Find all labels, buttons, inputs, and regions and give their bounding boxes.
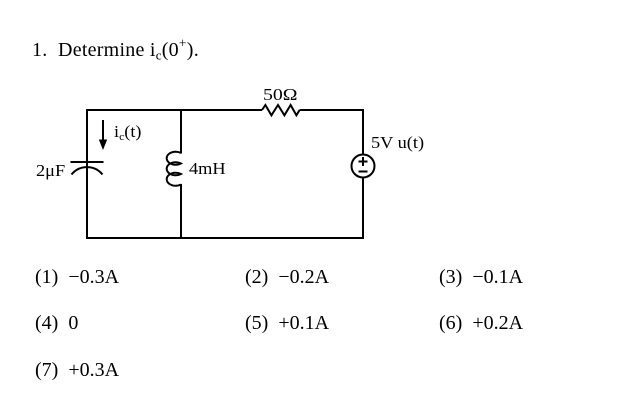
source V1 5V u(t) circle	[352, 155, 375, 178]
answer option 3	[439, 267, 523, 287]
wire: right side top	[362, 109, 364, 154]
wire: middle vertical bottom	[180, 184, 182, 239]
wire: middle vertical top	[180, 109, 182, 154]
current arrow ic(t)	[99, 120, 107, 150]
resistor R 50ohm zigzag	[262, 105, 300, 115]
title: problem statement	[32, 40, 199, 60]
capacitor C 2uF plates	[71, 162, 104, 175]
label: current ic(t)	[114, 123, 141, 140]
wire: right side bottom	[362, 178, 364, 239]
wire: top side left segment	[86, 109, 262, 111]
inductor L 4mH coil	[167, 152, 181, 186]
label: source value 5V u(t)	[371, 135, 424, 152]
answer option 5	[245, 313, 329, 333]
answer option 6	[439, 313, 523, 333]
wire: top side right segment	[300, 109, 363, 111]
label: inductor value 4mH	[189, 161, 226, 178]
label: capacitor value 2uF	[36, 163, 65, 180]
label: resistor value 50ohm	[263, 87, 298, 104]
wire: left side vertical	[86, 109, 88, 239]
answer option 2	[245, 267, 329, 287]
wire: bottom side	[86, 237, 364, 239]
answer option 4	[35, 313, 78, 333]
answer option 1	[35, 267, 119, 287]
answer option 7	[35, 360, 119, 380]
